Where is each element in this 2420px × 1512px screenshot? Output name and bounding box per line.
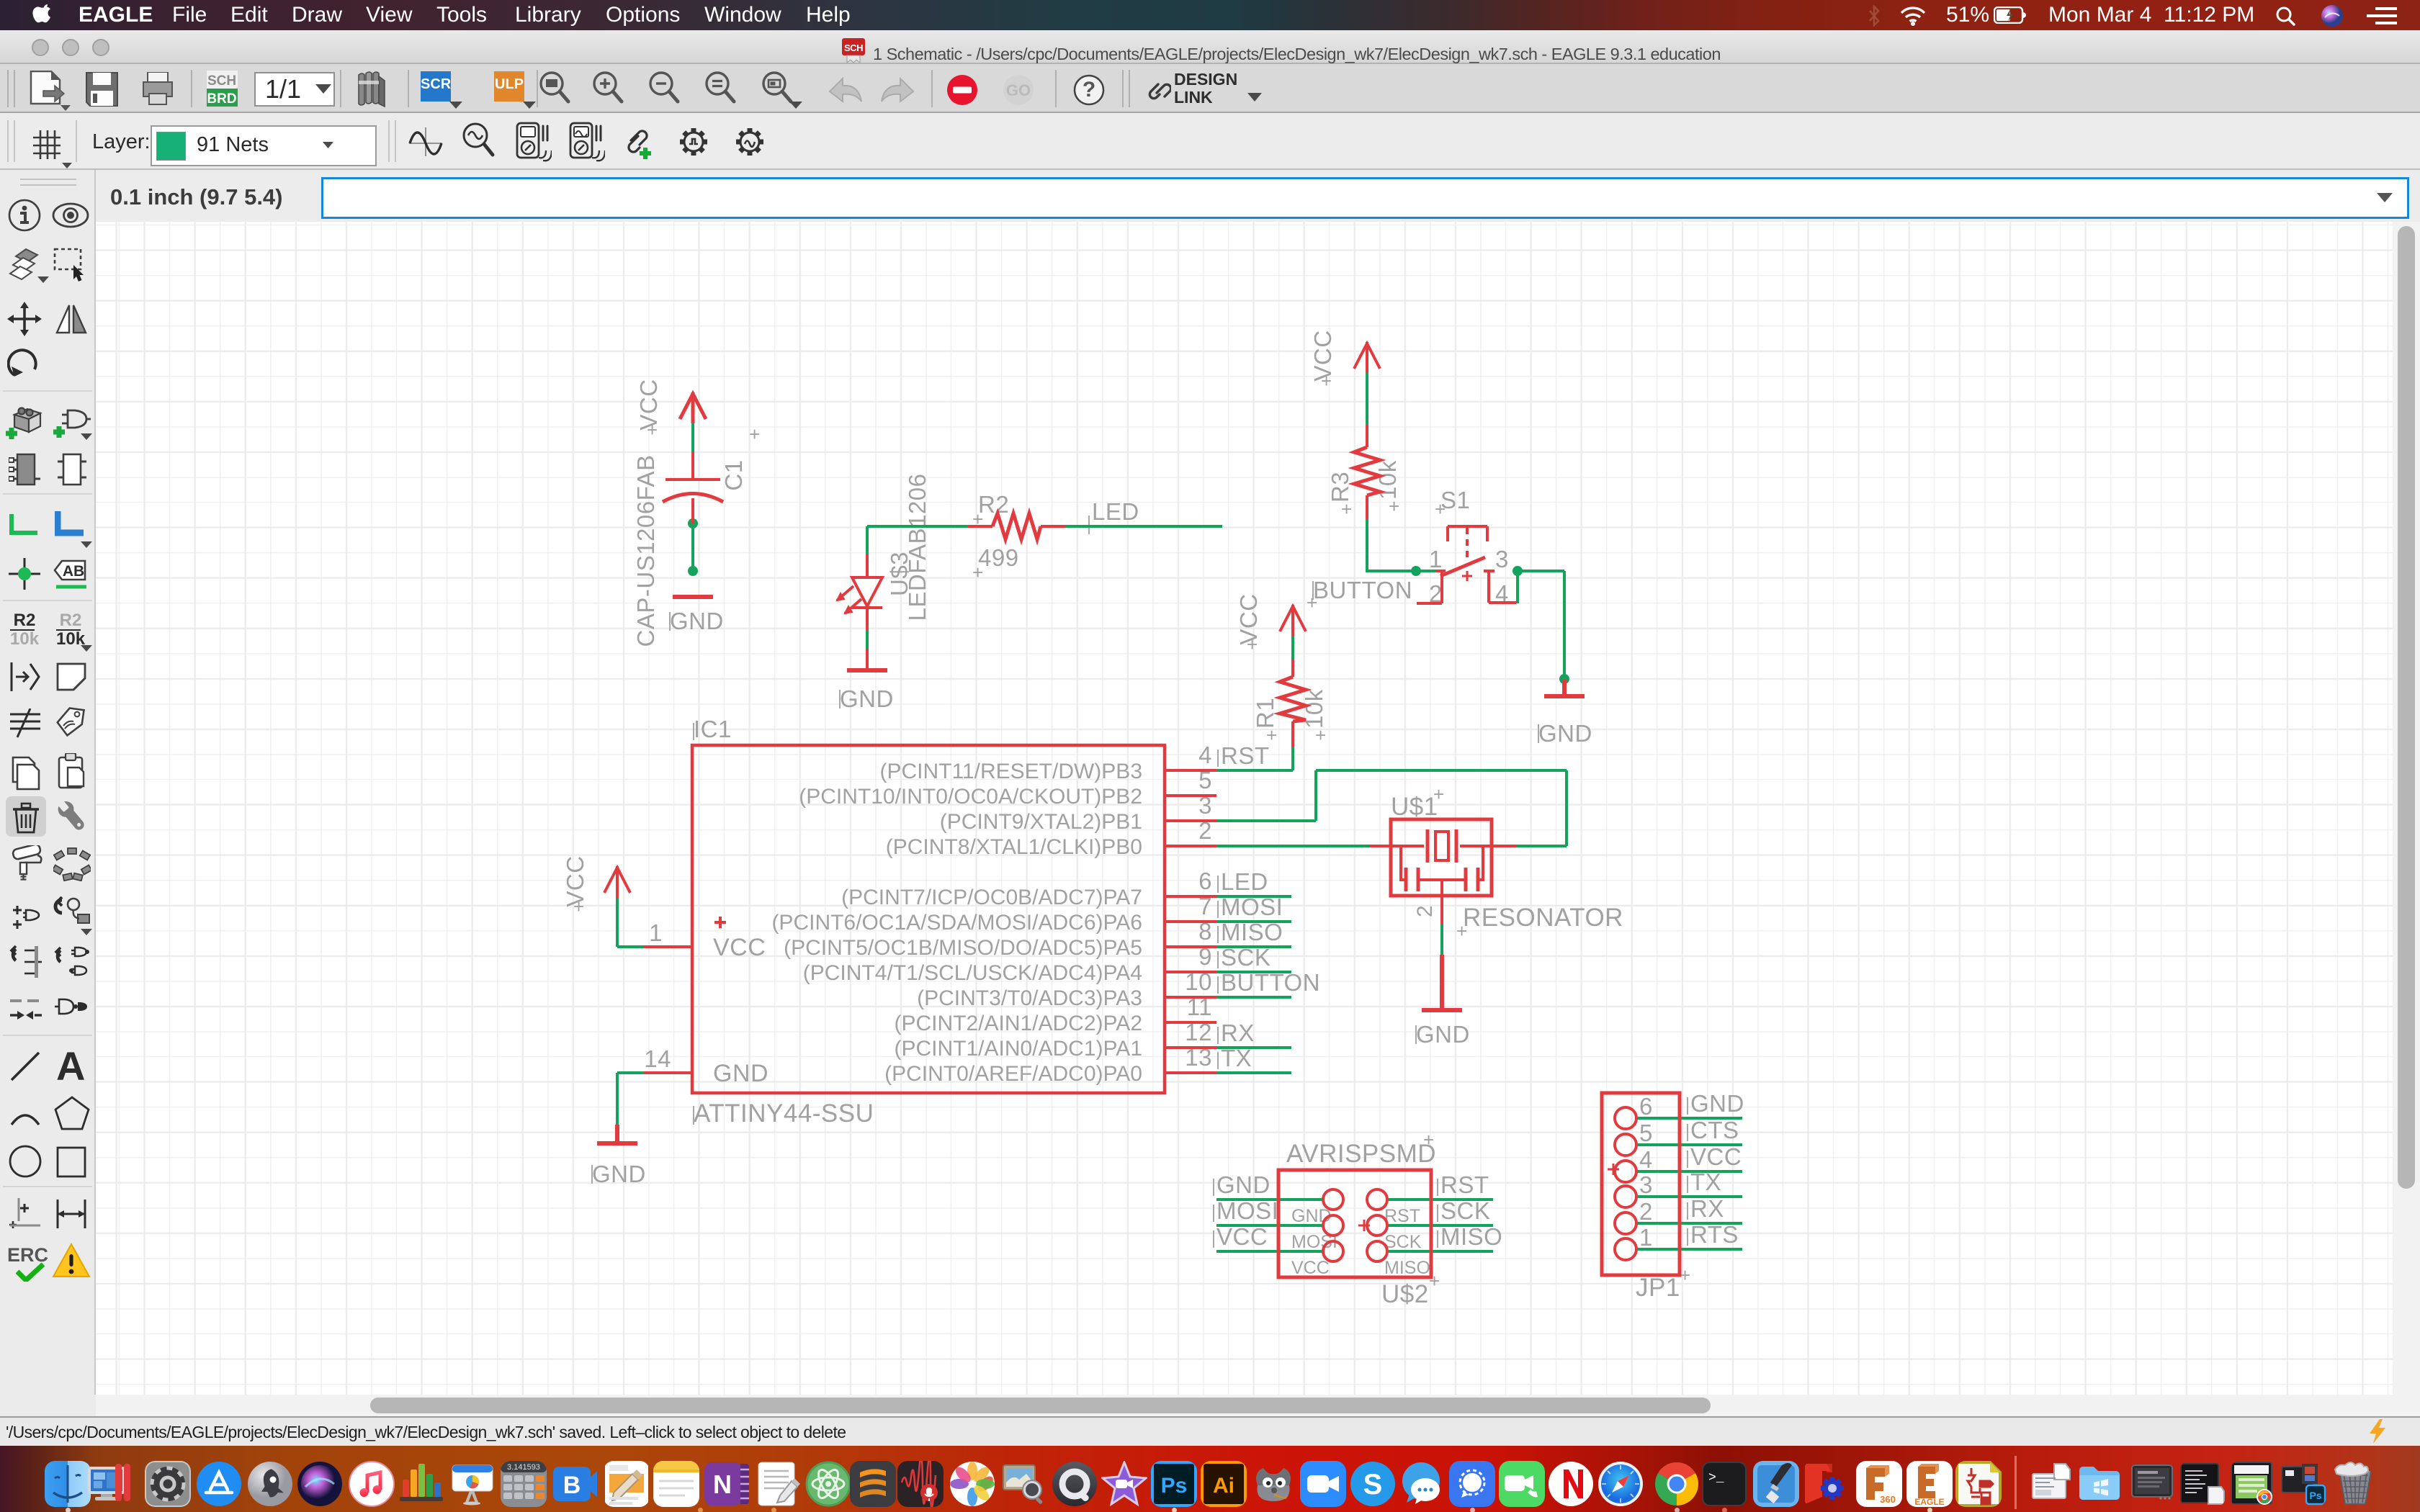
svg-text:MOSI: MOSI: [1216, 1197, 1278, 1224]
svg-text:+: +: [1341, 498, 1353, 520]
svg-text:(PCINT10/INT0/OC0A/CKOUT)PB2: (PCINT10/INT0/OC0A/CKOUT)PB2: [799, 785, 1142, 809]
svg-text:(PCINT0/AREF/ADC0)PA0: (PCINT0/AREF/ADC0)PA0: [884, 1062, 1142, 1086]
svg-text:SCH: SCH: [207, 73, 236, 89]
svg-text:3: 3: [1639, 1171, 1653, 1198]
svg-text:GND: GND: [1538, 720, 1592, 747]
svg-text:10k: 10k: [1301, 689, 1327, 729]
svg-text:(PCINT9/XTAL2)PB1: (PCINT9/XTAL2)PB1: [940, 810, 1142, 834]
svg-text:U$2: U$2: [1381, 1280, 1429, 1308]
svg-text:+: +: [647, 419, 658, 441]
svg-text:+: +: [972, 562, 984, 583]
svg-text:2: 2: [1413, 905, 1437, 917]
svg-text:VCC: VCC: [1690, 1143, 1742, 1170]
svg-text:+: +: [1315, 724, 1327, 746]
svg-text:(PCINT7/ICP/OC0B/ADC7)PA7: (PCINT7/ICP/OC0B/ADC7)PA7: [841, 886, 1142, 909]
svg-text:SCH: SCH: [844, 42, 863, 53]
svg-text:Ai: Ai: [1213, 1474, 1234, 1498]
svg-text:GO: GO: [1006, 81, 1031, 99]
svg-text:(PCINT1/AIN0/ADC1)PA1: (PCINT1/AIN0/ADC1)PA1: [894, 1037, 1142, 1061]
svg-text:14: 14: [644, 1045, 671, 1072]
svg-text:SCK: SCK: [1440, 1197, 1490, 1224]
svg-text:+: +: [1389, 495, 1400, 517]
svg-text:6: 6: [1639, 1093, 1653, 1120]
svg-text:RESONATOR: RESONATOR: [1463, 904, 1623, 932]
svg-text:VCC: VCC: [1216, 1223, 1268, 1250]
svg-text:RST: RST: [1221, 742, 1270, 769]
svg-text:AB: AB: [63, 563, 84, 580]
svg-text:(PCINT5/OC1B/MISO/DO/ADC5)PA5: (PCINT5/OC1B/MISO/DO/ADC5)PA5: [784, 936, 1142, 960]
svg-text:SCK: SCK: [1384, 1232, 1422, 1252]
svg-text:1: 1: [1639, 1224, 1653, 1251]
svg-text:Ps: Ps: [1161, 1474, 1188, 1498]
svg-text:LED: LED: [1092, 498, 1139, 525]
svg-text:C1: C1: [720, 459, 747, 490]
svg-text:VCC: VCC: [713, 934, 766, 961]
svg-text:1: 1: [649, 919, 663, 946]
svg-text:GND: GND: [713, 1060, 768, 1087]
svg-text:(PCINT11/RESET/DW)PB3: (PCINT11/RESET/DW)PB3: [880, 760, 1143, 783]
svg-text:BUTTON: BUTTON: [1313, 577, 1412, 603]
svg-text:EAGLE: EAGLE: [1914, 1497, 1944, 1507]
svg-text:RST: RST: [1440, 1171, 1489, 1198]
svg-text:Ps: Ps: [2309, 1490, 2321, 1501]
svg-text:RST: RST: [1384, 1206, 1420, 1226]
svg-text:3: 3: [1495, 546, 1509, 572]
svg-text:IC1: IC1: [694, 716, 732, 742]
svg-text:AVRISPSMD: AVRISPSMD: [1286, 1140, 1436, 1168]
svg-text:MISO: MISO: [1384, 1258, 1430, 1278]
svg-text:RX: RX: [1690, 1195, 1724, 1222]
svg-text:+: +: [1321, 370, 1332, 392]
svg-text:MISO: MISO: [1440, 1223, 1502, 1250]
svg-text:B: B: [563, 1472, 581, 1499]
svg-text:(PCINT2/AIN1/ADC2)PA2: (PCINT2/AIN1/ADC2)PA2: [894, 1012, 1142, 1035]
svg-text:GND: GND: [1690, 1090, 1744, 1117]
svg-text:(PCINT3/T0/ADC3)PA3: (PCINT3/T0/ADC3)PA3: [917, 986, 1142, 1010]
svg-text:GND: GND: [840, 685, 894, 712]
svg-text:?: ?: [1083, 78, 1095, 102]
svg-text:CAP-US1206FAB: CAP-US1206FAB: [632, 455, 659, 647]
svg-text:+: +: [749, 423, 761, 445]
svg-text:3.141593: 3.141593: [507, 1463, 540, 1472]
svg-text:>_: >_: [1708, 1471, 1724, 1485]
svg-text:LEDFAB1206: LEDFAB1206: [904, 474, 931, 621]
svg-text:2: 2: [1639, 1198, 1653, 1225]
svg-text:U$1: U$1: [1391, 793, 1438, 821]
svg-text:GND: GND: [1216, 1171, 1270, 1198]
svg-text:RTS: RTS: [1690, 1221, 1739, 1248]
svg-text:5: 5: [1639, 1120, 1653, 1146]
svg-text:ATTINY44-SSU: ATTINY44-SSU: [694, 1099, 874, 1128]
svg-text:+: +: [1423, 1129, 1435, 1151]
svg-text:N: N: [713, 1470, 732, 1499]
svg-text:RX: RX: [1221, 1020, 1255, 1046]
svg-text:6: 6: [1198, 868, 1212, 894]
svg-text:CTS: CTS: [1690, 1117, 1739, 1143]
svg-text:(PCINT6/OC1A/SDA/MOSI/ADC6)PA6: (PCINT6/OC1A/SDA/MOSI/ADC6)PA6: [771, 911, 1142, 935]
svg-text:GND: GND: [1416, 1021, 1470, 1048]
svg-text:S: S: [1363, 1469, 1383, 1500]
svg-text:+: +: [1435, 498, 1446, 520]
svg-text:GND: GND: [592, 1161, 646, 1187]
svg-text:+: +: [1456, 920, 1468, 942]
svg-text:360: 360: [1880, 1494, 1896, 1505]
svg-text:+: +: [1247, 634, 1258, 655]
svg-text:4: 4: [1639, 1146, 1653, 1173]
svg-text:1: 1: [1429, 546, 1443, 572]
svg-text:+: +: [573, 896, 585, 917]
svg-text:(PCINT8/XTAL1/CLKI)PB0: (PCINT8/XTAL1/CLKI)PB0: [886, 835, 1142, 859]
svg-text:JP1: JP1: [1636, 1274, 1680, 1302]
svg-text:499: 499: [978, 544, 1019, 571]
svg-text:VCC: VCC: [1291, 1258, 1330, 1278]
svg-text:+: +: [1307, 592, 1318, 613]
svg-text:BRD: BRD: [207, 91, 236, 107]
svg-text:4: 4: [1198, 742, 1212, 768]
svg-text:+: +: [1433, 783, 1445, 805]
svg-text:(PCINT4/T1/SCL/USCK/ADC4)PA4: (PCINT4/T1/SCL/USCK/ADC4)PA4: [803, 961, 1142, 985]
svg-text:GND: GND: [1291, 1206, 1332, 1226]
svg-text:LED: LED: [1221, 868, 1268, 895]
svg-text:GND: GND: [670, 608, 724, 634]
